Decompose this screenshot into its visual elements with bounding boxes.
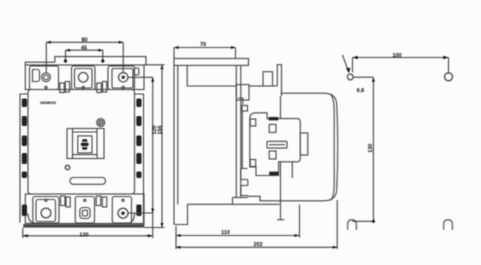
bottom plate [25,194,144,224]
top plate right notch [134,68,139,75]
cylinder rim [330,94,334,200]
vertical dim B [161,65,163,228]
dim 100 [353,57,449,59]
svg-text:120: 120 [80,233,89,239]
mounting plate [173,65,175,224]
dim B ext top [144,64,165,66]
latch lower step [291,162,293,178]
aux mark bottom [269,172,278,175]
hole right [445,73,453,81]
B3 screw [118,208,128,218]
arc chute lid profile [25,57,146,65]
window right column [96,129,98,159]
hook stem [247,180,249,197]
aux bracket vertical [241,111,243,168]
window top inner line [73,131,98,133]
dim 45 line [66,49,103,51]
dim 80 line [46,41,123,43]
B1 dot [45,199,47,201]
bracket line [188,203,280,205]
svg-text:155: 155 [158,126,164,135]
leader bottom screw [128,212,153,214]
svg-text:110: 110 [221,230,230,236]
main body [28,90,135,195]
terminal block T1 [30,66,59,90]
base bar [23,224,144,227]
svg-text:6,6: 6,6 [357,88,365,94]
tab bottom between B1 B2 [61,196,66,206]
tab bottom between B2 B3 [96,196,101,206]
slot right [444,220,453,230]
upper block [187,65,236,86]
left foot [28,214,34,224]
svg-text:70: 70 [200,42,206,48]
ext right of body [299,205,301,238]
vertical dim 130 [372,77,374,221]
valley tab1-tab2 [273,85,278,87]
aux sq top [269,124,276,132]
bottom block B1 [33,197,59,224]
dim 202 [176,246,337,248]
ext plate [175,226,177,249]
link hole to dim [353,76,373,78]
armature square [78,136,92,153]
B1 screw [41,208,51,218]
svg-text:45: 45 [81,45,87,51]
dim 45 ext dots [65,50,67,61]
dim B ext bottom [144,227,164,229]
tab between T1 T2 [60,83,65,93]
ext cylinder right [336,200,338,249]
window left column [72,129,74,159]
right rail [135,94,144,223]
top edge to tab1 [249,85,263,87]
bottom block B2 [75,197,94,224]
svg-text:130: 130 [368,144,374,153]
dim 70 line [174,47,236,49]
bracket right post [232,198,234,205]
aux step notch [242,106,248,112]
top flange [174,59,249,66]
body bottom [233,197,249,199]
right rail slots [136,99,141,217]
B2 screw [80,208,90,219]
svg-text:100: 100 [393,53,402,59]
aux tab1 [263,72,273,86]
dim 120 bottom line [23,235,153,237]
B2 dot [84,199,86,201]
knurled test button [97,119,105,127]
aux left sq top [250,119,256,126]
terminal block T3 [108,66,135,90]
T3 screw [119,73,128,82]
T2 dot [82,86,84,88]
aux left sq bottom [250,160,256,167]
vertical dim A [152,77,154,238]
window bottom inner line [73,154,98,156]
oblong slot [70,178,106,185]
right foot [129,214,135,224]
T1 clamp notch [33,70,40,82]
plate foot [174,204,188,224]
T1 dot [45,86,47,88]
front column [235,65,237,197]
aux left hook1 [241,169,248,180]
indicator window [67,129,104,159]
tab between T2 T3 [97,83,102,93]
leader top screw [128,76,153,78]
aux slot [267,141,287,148]
svg-text:SIEMENS: SIEMENS [40,101,57,105]
aux sq bottom [269,151,276,159]
front top block [236,85,249,100]
aux bracket top hook [238,98,243,105]
aux latch tab [300,133,308,155]
aux block [250,113,300,176]
terminal block T2 [72,66,96,90]
armature core [81,139,89,150]
hole left [347,74,353,80]
cylinder body [281,93,338,220]
dim 80 ext lines [45,42,47,73]
B3 dot [122,199,124,201]
hole leader [343,55,349,71]
aux left hook2 [241,186,248,196]
left rail [20,94,28,223]
aux mark top [269,117,279,120]
top plate [25,65,144,90]
svg-text:202: 202 [254,242,263,248]
aux tab2 [277,65,281,96]
T1 screw [42,73,51,82]
slot left [348,220,357,230]
T3 dot [122,86,124,88]
left rail slots [22,99,27,217]
T2 screw [78,73,88,83]
bottom block B3 [112,197,131,224]
small circle [65,165,69,169]
clip bottom tick [277,219,284,221]
link slot to dim [352,220,373,222]
svg-text:80: 80 [82,37,88,43]
body step down [248,196,281,201]
dim 110 [176,235,299,237]
